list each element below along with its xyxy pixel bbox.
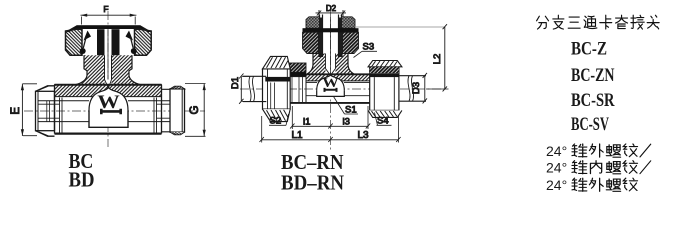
- wire vertical centerline: [330, 8, 332, 150]
- ferrule left: [84, 31, 92, 41]
- svg-text:G: G: [189, 105, 201, 114]
- body bottom: [286, 102, 371, 104]
- right port nut: [162, 89, 171, 132]
- stem right wall: [336, 54, 355, 75]
- svg-text:D2: D2: [326, 4, 337, 13]
- stem bore: [326, 54, 336, 76]
- svg-text:BC-SR: BC-SR: [571, 91, 615, 111]
- dimension E: [21, 84, 23, 137]
- left tube: [243, 76, 266, 101]
- title 分支三通卡套接头: [537, 16, 549, 29]
- top nut left block: [66, 29, 83, 55]
- right tube break: [408, 76, 414, 102]
- svg-text:D1: D1: [230, 77, 241, 89]
- port bore lines: [38, 101, 183, 122]
- svg-text:24°: 24°: [546, 143, 567, 159]
- dome white: [89, 88, 128, 128]
- body top band: [306, 74, 371, 81]
- svg-text:24°: 24°: [546, 160, 567, 176]
- left dark block: [290, 63, 307, 72]
- top tube walls: [320, 15, 342, 58]
- top nut dark left: [303, 32, 319, 53]
- svg-text:BC-Z: BC-Z: [571, 40, 607, 60]
- seal dot right: [131, 48, 137, 54]
- left tube break: [249, 76, 255, 101]
- dimension D1: [240, 76, 242, 101]
- body bore lines: [306, 82, 371, 95]
- left thread zone: [286, 77, 307, 103]
- svg-text:BD: BD: [69, 168, 95, 192]
- W box right: [317, 90, 345, 96]
- top nut dark right: [343, 32, 359, 53]
- stem left wall: [307, 54, 326, 75]
- svg-text:L2: L2: [432, 54, 443, 65]
- wire horizontal centerline: [240, 88, 448, 90]
- W box: [89, 111, 128, 128]
- svg-text:l3: l3: [343, 116, 350, 127]
- right port nut: [370, 67, 399, 111]
- top nut right block: [135, 29, 152, 55]
- body inner verticals: [60, 98, 157, 134]
- body top band hatched: [55, 85, 162, 97]
- wire horizontal centerline: [24, 110, 205, 112]
- dimension L1 L3: [262, 139, 399, 141]
- svg-text:BC-SV: BC-SV: [571, 115, 609, 135]
- left port nut: [36, 86, 55, 136]
- W dome right: [317, 75, 345, 96]
- svg-text:S3: S3: [363, 42, 375, 53]
- svg-text:E: E: [10, 107, 22, 115]
- left port nut: [263, 69, 291, 109]
- seal dot left: [80, 48, 86, 54]
- body outline: [55, 85, 162, 134]
- top locknut gray right: [342, 17, 356, 28]
- right tube: [400, 76, 427, 102]
- svg-text:BC-ZN: BC-ZN: [571, 66, 615, 86]
- stem right wall: [112, 55, 141, 84]
- svg-text:F: F: [103, 4, 108, 14]
- top nut cap bar: [77, 25, 141, 29]
- stem left wall: [76, 55, 105, 84]
- stem bore V notch: [105, 80, 112, 89]
- dimension F line: [81, 14, 137, 16]
- top locknut gray left: [306, 17, 320, 28]
- L2 extension line: [356, 26, 445, 28]
- dimension D3: [424, 76, 426, 102]
- dimension L2: [444, 27, 446, 89]
- ferrule right: [126, 31, 134, 41]
- top nut cap bar: [303, 28, 359, 32]
- top nut left chamfer: [66, 25, 77, 32]
- svg-text:24°: 24°: [546, 177, 567, 193]
- dimension l1 l3: [292, 125, 368, 127]
- tube walls in nut: [97, 29, 105, 55]
- svg-text:L1: L1: [292, 130, 304, 141]
- dimension D2 line: [316, 12, 347, 14]
- svg-text:L3: L3: [358, 130, 370, 141]
- top nut right chamfer: [141, 25, 152, 32]
- svg-text:D3: D3: [411, 82, 422, 94]
- wire vertical centerline: [107, 11, 109, 147]
- svg-text:BD–RN: BD–RN: [281, 171, 344, 195]
- svg-text:l1: l1: [303, 116, 310, 127]
- dimension G: [203, 83, 205, 136]
- stem bore lines: [105, 55, 112, 79]
